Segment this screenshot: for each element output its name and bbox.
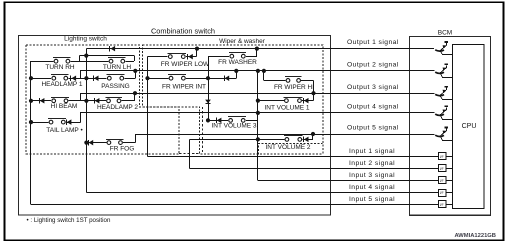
- svg-text:HI BEAM: HI BEAM: [51, 103, 78, 110]
- svg-text:CPU: CPU: [462, 123, 477, 130]
- svg-text:FR FOG: FR FOG: [110, 146, 135, 153]
- wire row1 feed bridge: [79, 55, 134, 57]
- svg-text:PASSING: PASSING: [101, 83, 129, 90]
- svg-text:Combination switch: Combination switch: [151, 27, 215, 36]
- diode passing: [93, 76, 95, 81]
- svg-text:Lighting switch: Lighting switch: [64, 36, 107, 43]
- wire Output 5 signal with left drop: [136, 135, 435, 143]
- wire row2: [31, 78, 135, 80]
- svg-text:I/F: I/F: [440, 203, 444, 207]
- switch FR WIPER INT: [168, 76, 186, 81]
- wire fr-washer riser: [256, 49, 258, 57]
- svg-text:Output 4 signal: Output 4 signal: [347, 104, 399, 111]
- wire headlamp2 riser: [134, 93, 136, 101]
- junction dot on output5: [311, 132, 315, 136]
- column wire int-volume-2 left: [189, 139, 191, 168]
- wire row1: [31, 61, 134, 63]
- diode int-volume-2: [303, 137, 305, 142]
- switch TURN LH: [108, 59, 125, 64]
- svg-text:FR WIPER INT: FR WIPER INT: [162, 83, 206, 90]
- lighting switch dashed box: [26, 45, 179, 154]
- svg-text:Output 2 signal: Output 2 signal: [347, 62, 399, 69]
- BCM box: [410, 37, 491, 216]
- wire fr-wiper-int row: [148, 78, 237, 80]
- svg-text:Input 5 signal: Input 5 signal: [349, 196, 395, 203]
- svg-text:HEADLAMP 2: HEADLAMP 2: [97, 104, 138, 111]
- diode turn-row output1: [109, 46, 111, 51]
- diode headlamp1: [70, 76, 72, 81]
- diode int-volume-1: [303, 98, 305, 103]
- svg-text:Input 3 signal: Input 3 signal: [349, 172, 395, 179]
- svg-text:• : Lighting switch 1ST positi: • : Lighting switch 1ST position: [27, 217, 111, 224]
- junction dots on output2: [133, 69, 137, 73]
- switch FR WIPER LOW: [168, 54, 186, 59]
- junction dots on output1: [195, 47, 199, 51]
- interface block I/F input 4: [439, 190, 447, 197]
- CPU box U1: [453, 45, 485, 209]
- svg-text:Wiper & washer: Wiper & washer: [219, 38, 266, 45]
- column wire left bus: [30, 61, 32, 204]
- svg-text:I/F: I/F: [440, 155, 444, 159]
- interface block I/F input 5: [439, 201, 447, 208]
- svg-text:Input 2 signal: Input 2 signal: [349, 160, 395, 167]
- dashed bottom bridge: [179, 153, 200, 155]
- diode int-volume-3: [216, 118, 218, 123]
- wire fr-washer row: [208, 56, 257, 58]
- column wire int-volume-2 riser: [312, 134, 314, 139]
- transistor Q2 output 2: [435, 72, 444, 73]
- svg-text:HEADLAMP 1: HEADLAMP 1: [41, 81, 82, 88]
- svg-text:I/F: I/F: [440, 191, 444, 195]
- wire Input 4 signal: [86, 192, 438, 194]
- svg-text:Output 5 signal: Output 5 signal: [347, 125, 399, 132]
- switch TURN RH: [53, 59, 70, 64]
- wire row4: [31, 122, 81, 124]
- wire Output 1 signal: [86, 48, 434, 50]
- diode fr-wiper-low: [187, 54, 189, 59]
- switch HEADLAMP 1: [51, 76, 68, 81]
- column wire washer/int bus: [208, 56, 210, 120]
- svg-text:FR WASHER: FR WASHER: [218, 59, 257, 66]
- wire fr-wiper-hi left riser: [263, 71, 265, 81]
- diode fr-wiper-int: [224, 76, 226, 81]
- wire row3: [31, 100, 135, 102]
- switch INT VOLUME 3: [228, 118, 246, 123]
- wire bridge left riser: [79, 56, 81, 62]
- svg-text:TAIL LAMP •: TAIL LAMP •: [46, 127, 83, 134]
- svg-text:INT VOLUME 1: INT VOLUME 1: [264, 104, 309, 111]
- junction dots feed bus: [84, 54, 88, 58]
- wire Output 3 signal with left drop: [81, 94, 435, 101]
- wire Input 3 signal: [258, 180, 438, 182]
- wire Output 4 signal with left drop: [81, 113, 435, 123]
- svg-text:Output 3 signal: Output 3 signal: [347, 84, 399, 91]
- column wire output-1 feed bus: [86, 49, 88, 193]
- wire fr-wiper-hi row: [264, 80, 314, 82]
- svg-text:BCM: BCM: [438, 29, 452, 36]
- int-volume-2 dashed sub-box: [259, 144, 323, 155]
- wire int-volume-1 row: [258, 100, 314, 102]
- wire int-volume-3 row: [208, 120, 258, 122]
- diode washer-column down: [205, 100, 211, 104]
- wire Input 1 signal: [148, 156, 439, 158]
- wiper and washer dashed box: [143, 45, 323, 154]
- diode fr-fog: [88, 140, 90, 145]
- interface block I/F input 3: [439, 177, 447, 184]
- column wire wiper-low/int bus: [147, 57, 149, 157]
- diode hi-beam: [39, 98, 41, 103]
- svg-text:Input 1 signal: Input 1 signal: [349, 148, 395, 155]
- svg-text:I/F: I/F: [440, 179, 444, 183]
- switch FR FOG: [106, 140, 123, 145]
- switch FR WASHER: [229, 54, 246, 59]
- wire Output 2 signal with left drop: [81, 71, 435, 79]
- svg-text:TURN RH: TURN RH: [45, 64, 75, 71]
- svg-text:Input 4 signal: Input 4 signal: [349, 184, 395, 191]
- transistor Q1 output 1: [435, 50, 444, 51]
- svg-text:INT VOLUME 3: INT VOLUME 3: [211, 123, 256, 130]
- wire Input 5 signal: [31, 204, 438, 206]
- wire bridge to output1: [86, 49, 88, 56]
- diode headlamp2: [94, 98, 96, 103]
- switch INT VOLUME 1: [284, 98, 302, 103]
- combination switch box: [19, 36, 331, 216]
- transistor Q4 output 4: [435, 114, 444, 115]
- svg-text:AWMIA1221GB: AWMIA1221GB: [454, 233, 496, 239]
- wire bridge right riser: [134, 56, 136, 62]
- wire passing riser: [135, 71, 137, 78]
- wiper box inner dashed edge: [202, 107, 204, 154]
- interface block I/F input 1: [439, 153, 447, 160]
- wire fr-wiper-low row: [148, 56, 197, 58]
- switch INT VOLUME 2: [284, 137, 302, 142]
- diode tail-lamp: [66, 119, 68, 124]
- svg-text:Output 1 signal: Output 1 signal: [347, 39, 399, 46]
- svg-text:FR WIPER HI: FR WIPER HI: [274, 84, 314, 91]
- switch HEADLAMP 2: [106, 99, 122, 104]
- svg-text:TURN LH: TURN LH: [103, 64, 131, 71]
- wire fr-wiper-low riser: [196, 49, 198, 57]
- svg-text:I/F: I/F: [440, 167, 444, 171]
- switch TAIL LAMP: [48, 120, 66, 125]
- junction dots on output3: [133, 91, 137, 95]
- junction dots left bus: [29, 76, 33, 80]
- svg-text:FR WIPER LOW: FR WIPER LOW: [161, 61, 210, 68]
- interface block I/F input 2: [439, 165, 447, 172]
- transistor Q5 output 5: [435, 135, 444, 136]
- junction dot wiper-int left: [145, 76, 149, 80]
- wire fr-wiper-int riser: [236, 71, 238, 78]
- svg-text:INT VOLUME 2: INT VOLUME 2: [265, 144, 310, 151]
- junction dots int-volume bus: [256, 99, 260, 103]
- wire row5: [86, 142, 135, 144]
- column wire wiper-hi / int-volume-1 riser: [313, 80, 315, 100]
- column wire int-volume bus: [257, 71, 259, 180]
- switch HI BEAM: [51, 99, 69, 104]
- wire int-volume-2 row: [189, 139, 313, 141]
- switch PASSING: [107, 76, 125, 81]
- wire Input 2 signal: [189, 168, 438, 170]
- junction dots washer bus: [206, 76, 210, 80]
- switch FR WIPER HI: [285, 78, 301, 83]
- transistor Q3 output 3: [435, 94, 444, 95]
